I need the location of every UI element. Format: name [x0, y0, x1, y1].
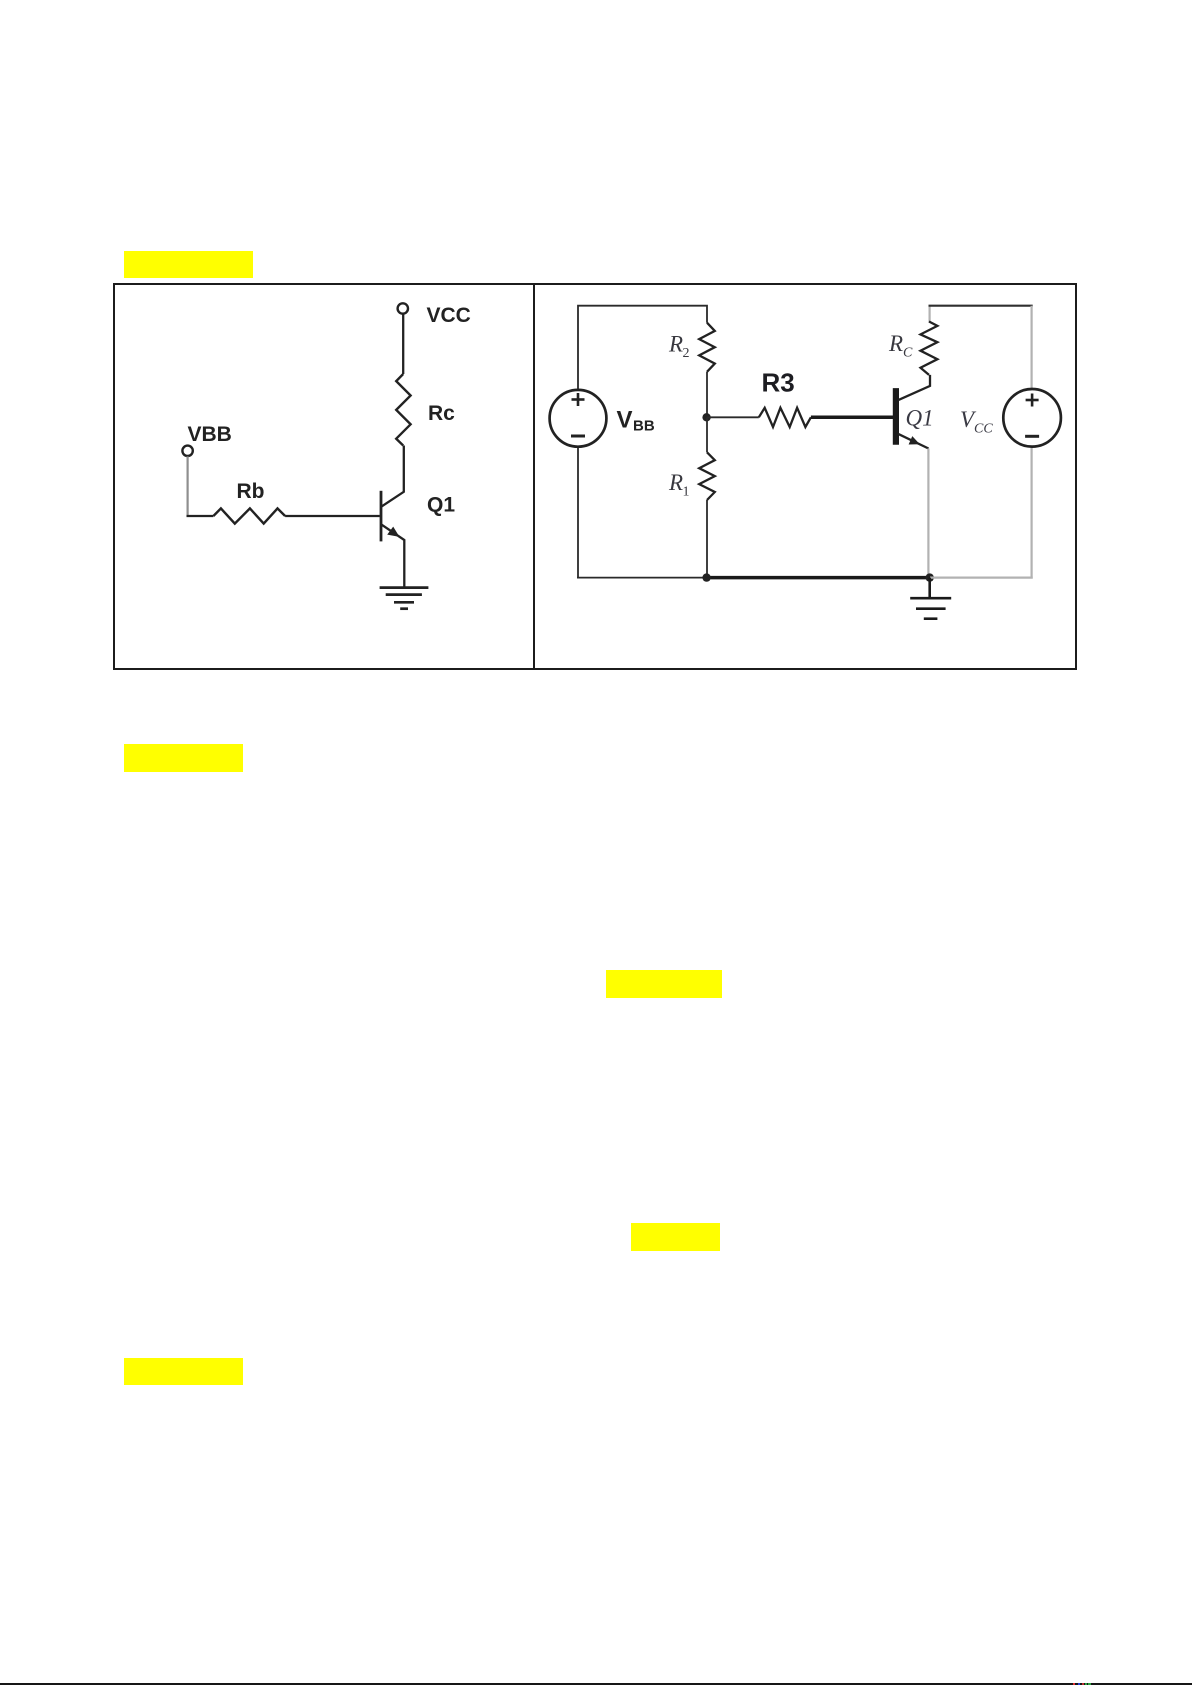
svg-text:VCC: VCC — [427, 304, 471, 327]
svg-text:R: R — [668, 470, 683, 495]
wire: emitter to rail (gray) — [927, 449, 929, 578]
highlight 1 (redacted caption above figure) — [124, 251, 253, 278]
wire: top right loop (black) — [929, 305, 1033, 307]
VCC plus sign — [1026, 394, 1039, 407]
VBB plus sign — [572, 393, 585, 406]
wire: Rc bottom to collector — [382, 446, 404, 507]
resistor R2 — [699, 323, 715, 372]
wire: R1 to rail — [706, 500, 708, 578]
wire: R3 to base (thick) — [811, 416, 894, 420]
wire: VBB loop (top-left, black) — [578, 306, 707, 390]
svg-text:R: R — [888, 331, 903, 356]
wire: Rb to base — [285, 515, 380, 517]
svg-text:1: 1 — [683, 485, 690, 500]
highlight 4 — [631, 1223, 720, 1251]
svg-text:VBB: VBB — [188, 423, 232, 446]
highlight 5 — [124, 1358, 243, 1385]
svg-text:C: C — [903, 346, 913, 361]
emitter arrowhead — [387, 527, 399, 537]
svg-text:R3: R3 — [762, 368, 795, 398]
resistor Rc — [396, 374, 410, 446]
VCC minus sign — [1025, 435, 1039, 438]
resistor RC — [921, 322, 938, 375]
wire: bottom rail thick (node to ground) — [706, 576, 930, 580]
VBB minus sign — [571, 435, 585, 438]
bottom rule (top edge of cropped footer) — [0, 1683, 1192, 1685]
ground — [380, 588, 429, 609]
resistor R1 — [699, 452, 715, 500]
resistor R3 — [759, 408, 811, 427]
wire: bottom rail right (gray) — [930, 576, 1033, 578]
wire: emitter diagonal — [898, 434, 929, 449]
resistor Rb — [213, 508, 285, 523]
wire: VBB corner to Rb — [187, 515, 214, 517]
wire: VBB source bottom to rail — [577, 446, 579, 578]
svg-text:Rb: Rb — [237, 480, 265, 503]
svg-text:Q1: Q1 — [906, 406, 934, 431]
voltage source VCC — [1003, 389, 1061, 447]
ground — [910, 578, 951, 619]
RIGHT CIRCUIT SVG — [535, 284, 1077, 670]
wire: R2 to node — [706, 372, 708, 418]
wire: node to R3 — [707, 416, 759, 418]
highlight 2 — [124, 744, 243, 772]
wire: bottom rail left (thin) — [577, 577, 706, 579]
emitter arrowhead — [909, 436, 920, 444]
junction dot (rail left) — [702, 573, 710, 581]
svg-text:2: 2 — [683, 346, 690, 361]
svg-text:Rc: Rc — [428, 402, 455, 425]
figure column divider — [533, 283, 535, 670]
highlight 3 — [606, 970, 722, 998]
svg-text:R: R — [668, 332, 683, 357]
transistor Q1 base bar — [893, 388, 899, 445]
voltage source VBB — [550, 390, 607, 447]
wire: VBB lead (gray) — [187, 456, 189, 515]
wire: VCC loop verticals (gray) — [1030, 306, 1032, 390]
svg-text:V: V — [617, 407, 633, 434]
figure border box — [113, 283, 1077, 670]
wire: collector diagonal and lead — [898, 375, 930, 400]
svg-text:BB: BB — [633, 418, 655, 435]
wire: VCC lead down to Rc — [402, 314, 404, 374]
terminal VCC — [398, 303, 408, 313]
transistor Q1 base bar — [380, 491, 383, 542]
svg-text:CC: CC — [974, 422, 993, 437]
wire: node to R1 — [706, 417, 708, 452]
LEFT CIRCUIT SVG — [113, 284, 533, 670]
node junction dot — [702, 413, 710, 421]
wire: emitter diagonal — [382, 525, 405, 588]
wire: RC top lead (gray) — [928, 306, 930, 323]
terminal VBB — [182, 446, 192, 456]
svg-text:Q1: Q1 — [427, 494, 455, 517]
junction dot (rail right / ground) — [926, 573, 934, 581]
